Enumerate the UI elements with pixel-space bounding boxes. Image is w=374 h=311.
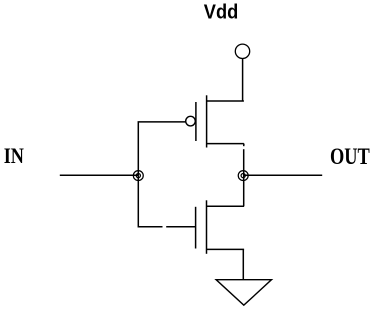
wire node IN down to NMOS gate	[138, 175, 162, 226]
node OUT junction	[238, 171, 248, 181]
ground	[216, 280, 271, 306]
wire NMOS source to ground	[242, 249, 244, 279]
terminal Vdd	[235, 44, 249, 58]
transistor M2 NMOS	[196, 200, 245, 254]
transistor M1 PMOS	[186, 95, 244, 147]
wire IN rail	[60, 174, 139, 176]
svg-text:Vdd: Vdd	[204, 1, 239, 24]
wire PMOS gate to node IN	[138, 122, 185, 175]
svg-text:OUT: OUT	[330, 144, 370, 169]
svg-text:IN: IN	[4, 143, 24, 168]
wire node OUT to NMOS drain	[243, 175, 245, 206]
wire Vdd terminal to PMOS source	[242, 59, 244, 101]
wire PMOS drain to node OUT	[243, 144, 245, 147]
wire OUT rail	[243, 174, 322, 176]
node IN junction	[133, 171, 143, 181]
